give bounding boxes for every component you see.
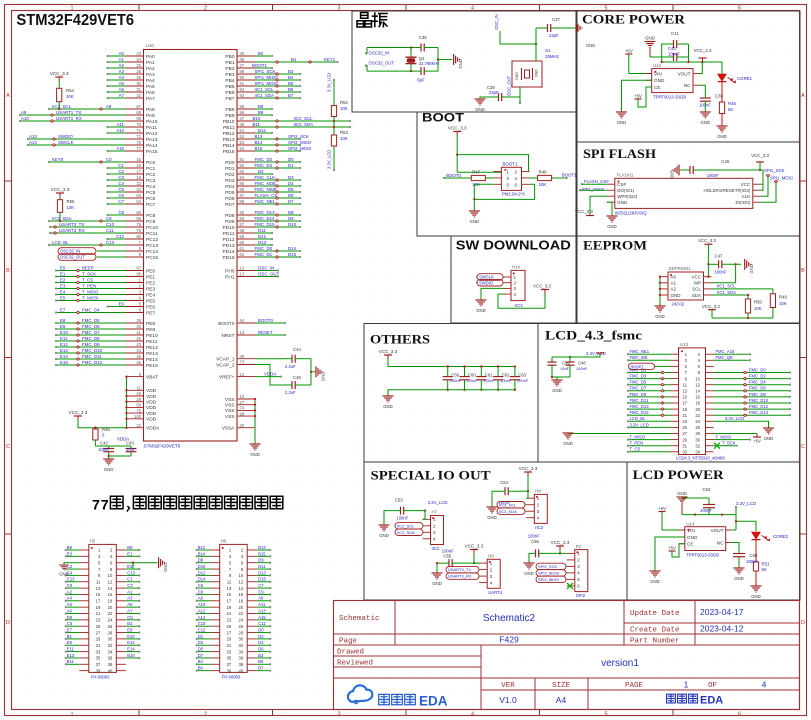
pin FLASH DO(IO1)/HOLD#orRESET#(IO3) xyxy=(607,189,615,191)
power flag VCC_3.3 (H9) xyxy=(470,549,478,551)
svg-text:D15: D15 xyxy=(258,577,266,582)
wire/pin U13 row 6 xyxy=(671,384,679,386)
svg-text:2023-04-17: 2023-04-17 xyxy=(700,607,744,617)
svg-text:3.3V_LCD: 3.3V_LCD xyxy=(327,73,332,92)
svg-text:69: 69 xyxy=(136,116,141,121)
svg-text:74: 74 xyxy=(240,406,245,411)
section box OTHERS xyxy=(364,324,538,463)
svg-text:E12: E12 xyxy=(127,640,135,645)
svg-text:R54: R54 xyxy=(66,88,74,93)
ground (SW DOWNLOAD) xyxy=(476,299,487,301)
svg-text:A2: A2 xyxy=(119,63,125,68)
svg-text:3.3V_LCD: 3.3V_LCD xyxy=(630,422,649,427)
svg-text:SPI2_MISO: SPI2_MISO xyxy=(538,577,559,582)
svg-text:PE15: PE15 xyxy=(146,363,158,369)
svg-text:FMC_D7: FMC_D7 xyxy=(630,386,647,391)
svg-text:FLASH_CS: FLASH_CS xyxy=(255,193,278,198)
svg-text:R53: R53 xyxy=(340,130,348,135)
wire/pin PE7 xyxy=(126,312,144,314)
svg-text:FMC_D5: FMC_D5 xyxy=(630,380,647,385)
svg-text:37: 37 xyxy=(227,662,232,667)
wire/pin U13 row 11 xyxy=(671,414,679,416)
svg-text:15: 15 xyxy=(96,592,101,597)
svg-text:R55: R55 xyxy=(67,199,75,204)
svg-text:100nF: 100nF xyxy=(746,559,758,564)
svg-text:T_SCK: T_SCK xyxy=(82,272,96,277)
section box LCD POWER xyxy=(627,462,800,600)
svg-text:C1: C1 xyxy=(118,163,124,168)
ground (U13 right) xyxy=(763,427,774,429)
svg-text:31: 31 xyxy=(227,643,232,648)
wire/pin U13 row 15 xyxy=(671,439,679,441)
svg-text:PD14: PD14 xyxy=(223,249,235,255)
wire/pin PB3 xyxy=(237,73,255,75)
svg-text:GND: GND xyxy=(487,515,497,520)
svg-text:54: 54 xyxy=(240,146,245,151)
svg-text:WP: WP xyxy=(694,281,701,286)
ground (R51) xyxy=(751,585,762,587)
svg-text:40: 40 xyxy=(239,668,244,673)
svg-text:B15: B15 xyxy=(255,146,263,151)
svg-text:BOOT: BOOT xyxy=(422,113,464,125)
svg-text:PD0: PD0 xyxy=(225,160,235,166)
svg-text:23: 23 xyxy=(227,618,232,623)
wire/pin PB9 xyxy=(237,114,255,116)
svg-text:VSS: VSS xyxy=(225,408,235,414)
svg-text:C: C xyxy=(801,444,805,450)
svg-text:FMC_D6: FMC_D6 xyxy=(82,324,100,329)
svg-text:IIC1_SDA: IIC1_SDA xyxy=(717,290,736,295)
svg-text:D5: D5 xyxy=(288,187,294,192)
wire VCC pin to rail xyxy=(760,170,763,184)
svg-text:C55: C55 xyxy=(443,554,451,559)
wire/pin PD8 xyxy=(237,214,255,216)
svg-text:GND: GND xyxy=(650,579,660,584)
wire/pin PE15 xyxy=(126,364,144,366)
svg-text:D: D xyxy=(6,620,10,626)
svg-text:E13: E13 xyxy=(67,653,75,658)
svg-text:SWDIO: SWDIO xyxy=(479,280,494,285)
svg-text:97: 97 xyxy=(136,266,141,271)
wire/pin U13 row 7 xyxy=(671,390,679,392)
svg-text:Create Date: Create Date xyxy=(630,627,680,635)
frame row ticks and letters xyxy=(5,180,12,182)
svg-text:A11: A11 xyxy=(258,602,266,607)
svg-text:11: 11 xyxy=(137,386,142,391)
svg-text:B: B xyxy=(801,268,805,274)
svg-text:35: 35 xyxy=(240,51,245,56)
svg-text:31: 31 xyxy=(136,87,141,92)
svg-text:24C02: 24C02 xyxy=(672,302,685,307)
svg-text:C54: C54 xyxy=(500,480,508,485)
svg-text:GND: GND xyxy=(59,572,69,577)
svg-text:HOLD#orRESET#(IO3): HOLD#orRESET#(IO3) xyxy=(704,188,751,193)
svg-text:C9: C9 xyxy=(106,216,112,221)
svg-text:D10: D10 xyxy=(288,222,297,227)
svg-text:VOUT: VOUT xyxy=(677,71,690,76)
svg-text:28: 28 xyxy=(695,431,700,436)
svg-text:D8: D8 xyxy=(198,558,204,563)
wire/pin H5 row 3 xyxy=(79,562,89,564)
svg-text:PA12: PA12 xyxy=(146,131,158,137)
svg-text:E11: E11 xyxy=(67,647,75,652)
svg-text:IIC2: IIC2 xyxy=(432,546,440,551)
svg-text:D13: D13 xyxy=(258,240,267,245)
svg-text:PE8: PE8 xyxy=(146,321,155,327)
svg-text:93: 93 xyxy=(240,93,245,98)
svg-text:37: 37 xyxy=(96,662,101,667)
svg-text:VDD: VDD xyxy=(146,400,157,406)
svg-text:R49: R49 xyxy=(779,295,787,300)
wire/pin PE14 xyxy=(126,358,144,360)
svg-text:U13: U13 xyxy=(680,342,689,347)
svg-text:NC: NC xyxy=(717,541,724,546)
svg-text:C10: C10 xyxy=(198,621,206,626)
svg-text:PC1: PC1 xyxy=(146,166,156,172)
svg-text:47: 47 xyxy=(240,116,245,121)
svg-text:PB11: PB11 xyxy=(223,125,235,131)
svg-text:PB2: PB2 xyxy=(225,66,234,72)
svg-text:16: 16 xyxy=(239,592,244,597)
svg-text:D4: D4 xyxy=(258,640,264,645)
ground (C50) xyxy=(734,567,745,569)
svg-text:VCC_3.3: VCC_3.3 xyxy=(551,540,570,545)
svg-text:FMC_D8: FMC_D8 xyxy=(749,392,766,397)
svg-text:OSC_IN: OSC_IN xyxy=(258,266,274,271)
svg-text:20: 20 xyxy=(240,423,245,428)
wire/pin PD7 xyxy=(237,203,255,205)
svg-text:FMC_D4: FMC_D4 xyxy=(82,308,100,313)
ground (C54) xyxy=(487,506,498,508)
wire/pin H5 row 10 xyxy=(79,606,89,608)
svg-text:B4: B4 xyxy=(288,75,294,80)
svg-text:3.3V_LCD: 3.3V_LCD xyxy=(736,501,756,506)
crystal X1 body xyxy=(512,61,542,87)
svg-text:E11: E11 xyxy=(60,336,68,341)
wire/pin H6 row 3 xyxy=(210,562,220,564)
wire/pin U13 row 13 xyxy=(671,426,679,428)
wire/pin PA10 xyxy=(126,120,144,122)
wire/pin H5 row 17 xyxy=(79,651,89,653)
svg-text:FH-00083: FH-00083 xyxy=(91,675,110,680)
svg-text:D2: D2 xyxy=(258,169,264,174)
svg-text:11: 11 xyxy=(683,382,688,387)
svg-text:29: 29 xyxy=(227,637,232,642)
wire/pin H6 row 19 xyxy=(210,663,220,665)
svg-text:TPRT9013-33GB: TPRT9013-33GB xyxy=(686,553,719,558)
svg-text:21: 21 xyxy=(240,372,245,377)
svg-text:FMC_D0: FMC_D0 xyxy=(749,367,766,372)
svg-text:D4: D4 xyxy=(288,181,294,186)
ground (U13 left) xyxy=(563,432,574,434)
svg-text:C11: C11 xyxy=(106,228,114,233)
svg-text:PA9: PA9 xyxy=(146,113,155,119)
wire pin3 to ground xyxy=(481,288,503,300)
svg-text:B8: B8 xyxy=(67,545,73,550)
ground (FLASH) xyxy=(607,215,618,217)
wire/pin PA11 xyxy=(126,126,144,128)
wire/pin PC15 xyxy=(126,256,144,258)
svg-text:D6: D6 xyxy=(258,647,264,652)
svg-text:LCD_BL: LCD_BL xyxy=(52,240,69,245)
wire/pin PB12 xyxy=(237,132,255,134)
wire WP to C47 node xyxy=(712,282,736,284)
svg-text:A0: A0 xyxy=(67,608,73,613)
svg-text:B11: B11 xyxy=(253,122,261,127)
svg-text:D0: D0 xyxy=(67,615,73,620)
svg-text:Part Number: Part Number xyxy=(630,638,680,646)
svg-text:H14: H14 xyxy=(512,265,521,270)
LED CORE2 xyxy=(752,532,761,539)
svg-text:PB6: PB6 xyxy=(225,90,234,96)
svg-text:PE9: PE9 xyxy=(146,327,155,333)
svg-text:FMC_D3: FMC_D3 xyxy=(255,163,273,168)
svg-text:53: 53 xyxy=(240,140,245,145)
svg-text:USART3_RX: USART3_RX xyxy=(59,228,85,233)
svg-text:A8: A8 xyxy=(106,104,112,109)
svg-text:C2: C2 xyxy=(118,169,124,174)
pullup resistor R55 with VCC_3.3 xyxy=(56,192,64,194)
wire/pin H6 row 6 xyxy=(210,581,220,583)
svg-text:EEPROM: EEPROM xyxy=(583,238,647,253)
svg-text:2: 2 xyxy=(204,711,207,717)
capacitor C34 xyxy=(420,67,422,75)
svg-text:PD2: PD2 xyxy=(225,172,235,178)
svg-text:D1: D1 xyxy=(198,634,204,639)
wire/pin U13 row 17 xyxy=(671,451,679,453)
svg-text:VIN: VIN xyxy=(687,528,695,533)
svg-text:PC11: PC11 xyxy=(146,231,158,237)
svg-text:USART1_RX: USART1_RX xyxy=(56,116,82,121)
wire/pin H5 row 1 xyxy=(79,549,89,551)
wire/pin PC5 xyxy=(126,191,144,193)
svg-text:A3: A3 xyxy=(127,596,133,601)
capacitor C47 xyxy=(708,263,718,265)
svg-text:B5: B5 xyxy=(258,659,264,664)
pin EEPROM A0/VCC xyxy=(660,276,668,278)
wire/pin PA5 xyxy=(126,85,144,87)
wire/pin H5 row 4 xyxy=(79,568,89,570)
svg-text:A0: A0 xyxy=(671,275,677,280)
svg-text:51: 51 xyxy=(240,128,245,133)
svg-text:21: 21 xyxy=(227,611,232,616)
svg-text:CLK: CLK xyxy=(742,194,751,199)
svg-text:D2: D2 xyxy=(258,634,264,639)
svg-text:A5: A5 xyxy=(127,602,133,607)
svg-text:PC7: PC7 xyxy=(146,202,156,208)
svg-text:IIC2_SDA: IIC2_SDA xyxy=(294,122,314,127)
svg-text:22pF: 22pF xyxy=(549,33,559,38)
svg-text:B14: B14 xyxy=(198,551,206,556)
svg-text:45: 45 xyxy=(136,354,141,359)
svg-text:D: D xyxy=(801,620,805,626)
svg-text:FMC_D13: FMC_D13 xyxy=(255,210,276,215)
svg-text:PD13: PD13 xyxy=(223,243,235,249)
svg-text:PA14: PA14 xyxy=(146,143,158,149)
svg-text:GND: GND xyxy=(677,491,687,496)
svg-text:FMC_D15: FMC_D15 xyxy=(255,222,276,227)
svg-text:38: 38 xyxy=(108,662,113,667)
resistor R47 xyxy=(471,175,485,180)
wire/pin PD14 xyxy=(237,250,255,252)
svg-text:82: 82 xyxy=(240,163,245,168)
svg-text:SPI1_SCK: SPI1_SCK xyxy=(255,69,276,74)
svg-text:11: 11 xyxy=(96,579,101,584)
svg-text:17: 17 xyxy=(682,401,687,406)
svg-text:A3: A3 xyxy=(119,69,125,74)
svg-text:CE: CE xyxy=(687,542,694,547)
svg-text:PA4: PA4 xyxy=(146,78,155,84)
svg-text:A4: A4 xyxy=(119,75,125,80)
wire osc32 bottom rail xyxy=(367,70,421,72)
svg-text:B14: B14 xyxy=(255,140,263,145)
svg-text:E8: E8 xyxy=(60,318,66,323)
resistor R51 xyxy=(753,562,758,571)
svg-text:B13: B13 xyxy=(258,545,266,550)
wire VOUT to node xyxy=(732,529,736,531)
wire/pin PH1 xyxy=(237,276,255,278)
svg-text:28: 28 xyxy=(136,397,141,402)
svg-text:A7: A7 xyxy=(127,608,133,613)
wire/pin PA9 xyxy=(126,114,144,116)
svg-text:40: 40 xyxy=(108,668,113,673)
section box CORE POWER xyxy=(577,11,800,142)
svg-text:FMC_D6: FMC_D6 xyxy=(749,386,766,391)
svg-text:R50: R50 xyxy=(754,300,762,305)
svg-text:E7: E7 xyxy=(67,627,73,632)
svg-text:D3: D3 xyxy=(198,640,204,645)
wire VOUT to rail xyxy=(699,62,702,74)
svg-text:C13: C13 xyxy=(106,240,115,245)
wire/pin PE2 xyxy=(126,282,144,284)
power flag VCC_3.3 (U10 analog) xyxy=(74,415,82,417)
svg-text:39: 39 xyxy=(136,318,141,323)
svg-text:100nF: 100nF xyxy=(528,534,540,539)
resistor R48 xyxy=(530,177,538,179)
svg-text:B12: B12 xyxy=(198,545,206,550)
ground (LED R45) xyxy=(717,125,728,127)
wire/pin PC2 xyxy=(126,173,144,175)
svg-text:DI(IO0): DI(IO0) xyxy=(736,200,751,205)
svg-text:23: 23 xyxy=(682,419,687,424)
svg-text:A9: A9 xyxy=(258,596,264,601)
svg-text:VSS: VSS xyxy=(225,403,235,409)
svg-text:73: 73 xyxy=(240,360,245,365)
wire/pin H6 row 20 xyxy=(210,670,220,672)
svg-text:BOOT1: BOOT1 xyxy=(502,162,517,167)
wire/pin PD10 xyxy=(237,226,255,228)
wire/pin H5 row 16 xyxy=(79,644,89,646)
svg-text:100nF: 100nF xyxy=(707,173,719,178)
svg-text:C11: C11 xyxy=(258,621,266,626)
svg-text:33: 33 xyxy=(136,181,141,186)
svg-text:30: 30 xyxy=(239,637,244,642)
wire/pin PD9 xyxy=(237,220,255,222)
svg-text:40: 40 xyxy=(136,324,141,329)
svg-text:26: 26 xyxy=(695,425,700,430)
wire/pin PC4 xyxy=(126,185,144,187)
wire H5 gnd right xyxy=(115,562,117,564)
svg-text:Page: Page xyxy=(339,638,357,646)
svg-text:SPI2: SPI2 xyxy=(576,593,586,598)
svg-text:24: 24 xyxy=(108,618,113,623)
svg-text:100nF: 100nF xyxy=(98,447,110,452)
svg-text:98: 98 xyxy=(136,272,141,277)
svg-text:IIC2_SCL: IIC2_SCL xyxy=(294,116,314,121)
wire/pin H6 row 13 xyxy=(210,625,220,627)
wire/pin U13 row 8 xyxy=(671,396,679,398)
svg-text:U10: U10 xyxy=(146,43,155,48)
svg-text:STM32F429VET6: STM32F429VET6 xyxy=(144,444,181,449)
svg-text:33: 33 xyxy=(682,450,687,455)
svg-text:100nF: 100nF xyxy=(700,508,712,513)
wire/pin PB15 xyxy=(237,150,255,152)
svg-text:E10: E10 xyxy=(60,330,68,335)
svg-text:34: 34 xyxy=(695,450,700,455)
pin VBAT xyxy=(126,376,144,378)
svg-text:50: 50 xyxy=(136,403,141,408)
svg-text:BEEP: BEEP xyxy=(82,266,94,271)
pin FLASH GND/DI(IO0) xyxy=(607,201,615,203)
svg-text:14: 14 xyxy=(240,330,245,335)
svg-text:B6: B6 xyxy=(198,666,204,671)
wire/pin PH0 xyxy=(237,270,255,272)
svg-text:76: 76 xyxy=(136,140,141,145)
svg-text:11: 11 xyxy=(227,579,232,584)
svg-text:PC10: PC10 xyxy=(146,225,158,231)
wire/pin H5 row 19 xyxy=(79,663,89,665)
svg-text:PAGE: PAGE xyxy=(625,682,644,690)
svg-text:PE5: PE5 xyxy=(146,298,155,304)
svg-text:C42: C42 xyxy=(100,441,108,446)
svg-text:100nF: 100nF xyxy=(483,378,495,383)
ports IIC3_SCL/SDA xyxy=(497,502,525,508)
svg-text:7: 7 xyxy=(92,498,100,514)
svg-text:IIC1_SCL: IIC1_SCL xyxy=(255,87,275,92)
wire/pin H5 row 2 xyxy=(79,555,89,557)
ground for C37 xyxy=(551,27,576,29)
svg-text:FMC_QE: FMC_QE xyxy=(716,355,734,360)
svg-text:A14: A14 xyxy=(29,140,37,145)
svg-text:LCD_BL: LCD_BL xyxy=(630,416,646,421)
svg-text:VDDA: VDDA xyxy=(146,426,160,432)
svg-text:PD10: PD10 xyxy=(223,225,235,231)
wire/pin PD11 xyxy=(237,232,255,234)
svg-text:E8: E8 xyxy=(127,627,133,632)
svg-text:D1: D1 xyxy=(288,163,294,168)
svg-text:U12: U12 xyxy=(653,63,662,68)
svg-text:A8: A8 xyxy=(198,596,204,601)
svg-text:FMC_D7: FMC_D7 xyxy=(82,330,100,335)
capacitor C63 xyxy=(514,367,516,377)
svg-text:FMC_D15: FMC_D15 xyxy=(630,410,650,415)
svg-text:3.3V_LCD: 3.3V_LCD xyxy=(725,416,744,421)
svg-text:VCC: VCC xyxy=(741,182,751,187)
svg-text:86: 86 xyxy=(240,187,245,192)
svg-text:12: 12 xyxy=(239,579,244,584)
svg-text:FMC_D9: FMC_D9 xyxy=(630,392,647,397)
svg-text:BOOT1: BOOT1 xyxy=(562,173,577,178)
wire/pin H6 row 7 xyxy=(210,587,220,589)
svg-text:SPI1_MOSI: SPI1_MOSI xyxy=(770,176,793,181)
svg-text:C44: C44 xyxy=(293,347,301,352)
svg-text:33: 33 xyxy=(96,649,101,654)
svg-text:PB10: PB10 xyxy=(223,119,235,125)
svg-text:70: 70 xyxy=(136,122,141,127)
svg-text:D0: D0 xyxy=(258,627,264,632)
power flag VCC_3.3 (others) xyxy=(384,354,392,356)
svg-text:C12: C12 xyxy=(198,627,206,632)
